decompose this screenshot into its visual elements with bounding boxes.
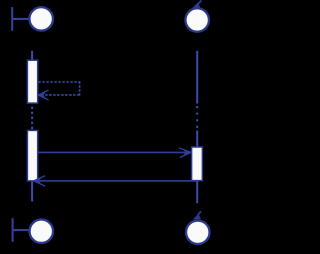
left lifeline upper segment	[31, 51, 33, 61]
return message arrowhead	[34, 176, 46, 186]
activation bar (right lifeline)	[192, 147, 203, 181]
boundary icon top-left (actor A)	[12, 7, 53, 31]
message 1 arrowhead	[179, 148, 191, 158]
right lifeline upper segment	[196, 51, 198, 104]
activation bar 1 (left lifeline)	[27, 60, 37, 103]
self message dashed (left lifeline)	[38, 81, 79, 95]
left lifeline lower stem	[31, 181, 33, 202]
boundary icon bottom-left (actor A)	[13, 218, 53, 243]
return message right-to-left solid arrow	[35, 180, 197, 182]
activation bar 2 (left lifeline)	[27, 130, 37, 181]
right lifeline lower stem	[196, 180, 198, 203]
right lifeline dotted segment	[196, 106, 198, 128]
right lifeline middle segment	[196, 131, 198, 148]
control icon bottom-right (actor B)	[186, 211, 210, 244]
left lifeline dotted segment	[31, 107, 33, 130]
message 1 left-to-right solid arrow	[38, 151, 190, 153]
self message arrowhead	[38, 90, 48, 100]
control icon top-right (actor B)	[185, 0, 209, 31]
